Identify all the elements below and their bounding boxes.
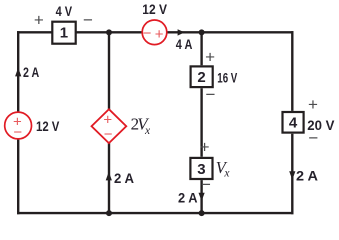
wire branch2 junction-to-box2 segment — [200, 32, 202, 65]
wire middle branch upper segment — [108, 32, 110, 109]
wire source-to-right-corner segment — [167, 31, 294, 33]
wire bottom segment — [17, 212, 294, 214]
dependent source 2Vx (diamond) — [92, 109, 127, 143]
svg-text:4 V: 4 V — [56, 3, 73, 19]
svg-text:−: − — [143, 25, 152, 42]
svg-text:2 A: 2 A — [114, 170, 134, 186]
svg-text:2 A: 2 A — [23, 64, 39, 80]
svg-text:+: + — [308, 95, 318, 114]
svg-text:16 V: 16 V — [217, 70, 237, 86]
svg-text:−: − — [201, 175, 211, 194]
svg-text:2 A: 2 A — [296, 168, 318, 184]
wire box2-to-box3 segment — [200, 88, 202, 157]
voltage source 12 V (left) — [5, 112, 32, 141]
wire left upper segment — [17, 31, 19, 112]
current arrow 4 A — [178, 29, 185, 35]
wire middle branch lower segment — [108, 143, 110, 213]
svg-text:2 A: 2 A — [178, 189, 198, 205]
node junction bottom-middle — [106, 210, 112, 216]
voltage source 12 V (top) — [142, 20, 167, 45]
node junction bottom-branch2 — [199, 210, 205, 216]
svg-text:+: + — [155, 26, 164, 43]
svg-text:−: − — [13, 124, 22, 141]
current arrow 2 A (left wire, up) — [15, 68, 21, 77]
wire right lower segment — [291, 134, 293, 215]
svg-text:x: x — [144, 125, 151, 137]
svg-text:12 V: 12 V — [36, 118, 60, 134]
current arrow 2 A (middle branch, up) — [106, 172, 112, 181]
element box 4 — [283, 112, 304, 133]
wire top-left segment — [17, 31, 52, 33]
svg-text:−: − — [206, 85, 216, 104]
wire left lower segment — [17, 139, 19, 215]
svg-text:+: + — [205, 48, 215, 67]
current arrow 2 A (right wire, down) — [289, 171, 295, 180]
node junction top-branch2 — [199, 29, 205, 35]
svg-text:+: + — [34, 11, 44, 30]
element box 3 — [190, 158, 212, 179]
svg-text:−: − — [104, 126, 113, 143]
wire box3-to-bottom segment — [200, 180, 202, 213]
node junction top-middle — [106, 29, 112, 35]
wire right upper segment — [291, 31, 293, 111]
svg-text:4 A: 4 A — [176, 36, 193, 52]
svg-text:x: x — [223, 167, 230, 179]
element box 1 — [52, 22, 75, 44]
element box 2 — [191, 66, 213, 87]
svg-text:1: 1 — [60, 25, 68, 42]
svg-text:−: − — [83, 11, 93, 30]
svg-text:+: + — [200, 138, 210, 157]
svg-text:2: 2 — [197, 69, 205, 86]
wire box1-to-junction segment — [76, 31, 143, 33]
svg-text:20 V: 20 V — [307, 117, 335, 133]
svg-text:4: 4 — [289, 115, 298, 132]
svg-text:12 V: 12 V — [142, 1, 167, 17]
current arrow 2 A (below box 3, down) — [199, 193, 205, 201]
